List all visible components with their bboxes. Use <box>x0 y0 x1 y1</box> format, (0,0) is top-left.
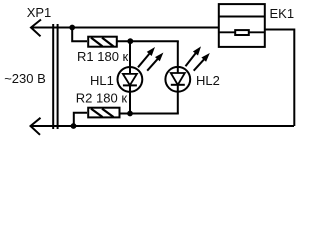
svg-text:HL1: HL1 <box>90 73 114 88</box>
svg-text:~230 В: ~230 В <box>4 71 46 86</box>
svg-text:EK1: EK1 <box>270 6 295 21</box>
svg-text:R2 180 к: R2 180 к <box>76 90 128 105</box>
svg-text:HL2: HL2 <box>196 73 220 88</box>
svg-text:XP1: XP1 <box>27 5 52 20</box>
svg-text:R1 180 к: R1 180 к <box>77 49 129 64</box>
